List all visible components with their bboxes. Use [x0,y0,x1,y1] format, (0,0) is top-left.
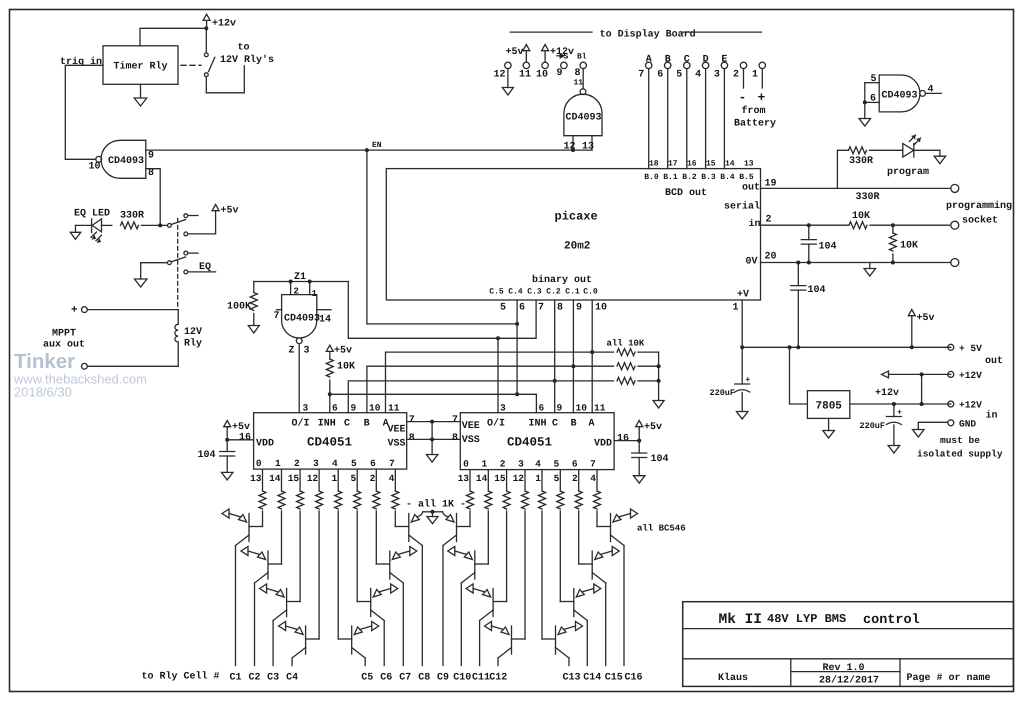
svg-text:4: 4 [695,70,701,81]
svg-text:8: 8 [557,303,563,314]
terminal +12V in [948,401,954,407]
node junction C.2 / C line [553,379,557,383]
svg-text:5: 5 [871,74,877,85]
svg-text:13: 13 [744,160,754,169]
switch S2a EQ select upper [168,224,172,228]
wire base C3 [299,511,301,602]
capacitor C3 104 (serial in) [808,225,810,239]
resistor 1K (channel C11) [506,470,508,491]
svg-text:+: + [745,376,750,385]
ground at U3 inputs [859,119,871,127]
svg-text:C6: C6 [380,673,392,684]
wire base C14 [559,511,561,602]
node junction emitter rail [431,510,435,514]
wire EN net vertical drop [366,150,368,324]
capacitor C4 104 (supply) [797,263,799,286]
wire Z output to CD4051#1 O/I [298,344,300,413]
svg-text:VEE: VEE [388,425,406,436]
svg-text:220uF: 220uF [710,388,736,398]
wire picaxe pin10 C.0 vertical [591,300,593,413]
node junction C.4 / INH line [515,392,519,396]
svg-text:2018/6/30: 2018/6/30 [14,385,72,400]
connector terminal 12 (display) [505,62,511,68]
wire terminal B to picaxe [667,69,669,169]
relay block Timer Rly [103,46,178,85]
wire U1 pin8 down to EQ LED node [146,169,160,226]
transistor C9 BC546 [456,514,458,542]
wire collector C15 output [605,583,607,666]
transistor C8 BC546 [408,514,410,542]
transistor C16 BC546 [610,514,612,542]
svg-text:+12v: +12v [212,19,236,30]
LED D2 emission arrows [910,135,916,142]
wire base C1 [262,511,264,527]
ground at 0V line [869,263,871,269]
transistor C2 BC546 [267,551,269,579]
svg-text:4: 4 [535,459,541,470]
transistor C5 BC546 [351,626,353,654]
terminal programming socket out [951,184,959,192]
svg-text:BCD out: BCD out [665,188,707,199]
svg-text:9: 9 [557,68,563,79]
svg-text:1: 1 [275,458,281,469]
wire serial in line (pin2) [761,224,850,226]
svg-text:11: 11 [574,79,584,88]
wire R7 to serial out line [837,150,848,188]
svg-text:+5v: +5v [644,422,662,433]
wire collector C1 output [235,546,237,666]
wire base C4 [318,511,320,639]
svg-text:1: 1 [535,473,541,484]
svg-text:16: 16 [239,433,251,444]
svg-text:0: 0 [256,458,262,469]
svg-text:C10: C10 [453,673,471,684]
node junction C.0 / A line [590,350,594,354]
terminal programming socket serial-in [951,221,959,229]
svg-text:5: 5 [554,473,560,484]
wire S2b common to ground [141,263,168,279]
connector terminal 1 (battery +) [759,62,765,68]
svg-text:7: 7 [409,415,415,426]
svg-text:C1: C1 [229,673,241,684]
svg-text:Rev 1.0: Rev 1.0 [823,663,865,674]
wire 10K common rail [658,352,660,400]
svg-text:48V LYP BMS: 48V LYP BMS [767,612,846,626]
wire terminal A to picaxe [648,69,650,169]
wire 7805 output to rail [790,347,808,404]
svg-text:7805: 7805 [816,401,843,413]
transistor C12 BC546 [511,626,513,654]
svg-text:VDD: VDD [594,439,612,450]
svg-text:104: 104 [819,242,837,253]
svg-text:Timer Rly: Timer Rly [114,61,168,73]
node junction serial-in cap [807,223,811,227]
svg-text:2: 2 [733,70,739,81]
wire GND terminal to ground [918,422,947,429]
wire base C7 [375,511,377,564]
svg-text:C4: C4 [286,673,298,684]
wire collector C4 output [291,658,293,666]
label +S at terminal 9 [557,55,560,57]
ground at 10K rail [653,401,664,409]
svg-text:-: - [739,90,747,105]
power flag +5v (CD4051#2) [636,421,643,427]
transistor C3 BC546 [286,589,288,617]
svg-text:+V: +V [737,290,749,301]
header label to Display Board [510,31,592,33]
transistor C4 BC546 [305,626,307,654]
node junction U3 inputs [863,100,867,104]
svg-text:7: 7 [452,415,458,426]
wire contact to 12V Rly's [206,66,244,93]
svg-text:picaxe: picaxe [555,210,598,224]
svg-text:3: 3 [303,403,309,414]
svg-text:C5: C5 [361,673,373,684]
wire R8 to socket [870,224,951,226]
wire 0V line (pin20) [761,262,951,264]
LED D1 EQ [91,219,93,233]
svg-text:MPPT: MPPT [52,329,76,340]
svg-text:5: 5 [553,459,559,470]
U3 pin6 stub [865,101,879,103]
svg-text:C.3: C.3 [527,288,542,297]
svg-text:5: 5 [676,70,682,81]
svg-text:VSS: VSS [388,439,406,450]
svg-text:in: in [986,410,998,422]
svg-text:control: control [863,613,920,628]
svg-text:9: 9 [576,303,582,314]
svg-text:7: 7 [274,311,280,322]
svg-text:C.1: C.1 [565,288,580,297]
svg-text:trig in: trig in [60,56,102,68]
node junction C.1 / B line [571,364,575,368]
svg-text:6: 6 [519,303,525,314]
resistor R9 10K pulldown [892,225,894,233]
U2 pin 12 stub [572,136,574,150]
NAND gate U1 CD4093 (trigger) [101,140,146,178]
wire C.3 net : Z1 input drop [348,282,536,339]
svg-text:C11: C11 [472,673,490,684]
node junction 0V/C3 [807,261,811,265]
NAND gate U2 CD4093 (pointing up) [564,94,602,136]
ground at C5 [736,412,748,420]
svg-text:10: 10 [536,70,548,81]
svg-text:0: 0 [463,459,469,470]
node junction VEE rail [430,420,434,424]
wire INH net to CD4051#2 [330,394,537,412]
svg-text:C14: C14 [583,673,601,684]
ground at program LED [939,150,941,156]
connector terminal 9 (display) [561,62,567,68]
capacitor C5 220uF [741,347,743,384]
resistor 1K (channel C3) [299,470,301,491]
svg-text:20m2: 20m2 [564,241,590,253]
svg-text:out: out [742,183,760,194]
wire VEE/VSS to ground [431,422,433,455]
svg-text:9: 9 [557,403,563,414]
wire base C5 [337,511,339,639]
svg-text:6: 6 [539,403,545,414]
svg-text:13: 13 [582,142,594,153]
dashed link Timer Rly to relay contact [181,64,201,66]
wire +12V out line [889,373,951,375]
switch S2b EQ select lower [168,261,172,265]
svg-text:VEE: VEE [462,421,480,432]
wire CD4051#2 pin3 O/I vertical [497,338,499,412]
svg-text:8: 8 [409,433,415,444]
U3 pin5 stub [865,82,879,84]
wire collector C12 output [497,658,499,666]
svg-text:+5v: +5v [232,422,250,433]
svg-text:out: out [985,356,1003,367]
ground at 7805 [828,418,830,430]
svg-text:C7: C7 [399,673,411,684]
node junction EN drop [365,148,369,152]
svg-text:+5v: +5v [334,346,352,357]
svg-text:6: 6 [657,70,663,81]
IC CD4051 #1 body [254,413,407,469]
svg-text:3: 3 [313,458,319,469]
terminal GND [948,420,954,426]
svg-text:to Rly Cell #: to Rly Cell # [142,671,220,683]
svg-text:10: 10 [89,162,101,173]
ground at 100K [248,326,259,334]
svg-text:12V Rly's: 12V Rly's [220,54,274,66]
ground below Timer Rly [140,84,142,98]
node junction rail/R5 [657,379,661,383]
wire collector C13 output [568,658,570,666]
svg-text:Page # or name: Page # or name [907,673,991,684]
svg-text:10: 10 [595,303,607,314]
wire +12v to Timer Rly [140,28,206,46]
svg-text:4: 4 [389,473,395,484]
resistor 1K (channel C1) [262,470,264,491]
wire collector C5 output [364,658,366,666]
svg-text:10K: 10K [900,241,918,252]
ground at emitter rail [432,512,434,517]
wire picaxe pin6 C.4 vertical [516,300,518,394]
svg-text:to: to [238,43,250,54]
svg-text:1: 1 [481,459,487,470]
svg-text:11: 11 [388,403,400,414]
transistor C13 BC546 [555,626,557,654]
svg-text:EN: EN [372,141,382,150]
svg-text:C8: C8 [418,673,430,684]
svg-text:+5v: +5v [506,47,524,58]
wire coil to MPPT - terminal [87,365,178,367]
node junction EQ LED / U1.8 / switch [158,223,162,227]
U2 pin 13 stub [591,136,593,150]
svg-text:104: 104 [198,450,216,461]
node junction rail/C4 [796,345,800,349]
svg-text:16: 16 [617,434,629,445]
wire collector C8 output [421,546,423,666]
LED D2 program [870,149,903,151]
resistor 1K (channel C16) [596,470,598,491]
svg-text:CD4093: CD4093 [108,156,144,167]
svg-text:CD4051: CD4051 [307,436,352,450]
wire +5V rail [742,346,951,348]
svg-text:3: 3 [714,70,720,81]
transistor C14 BC546 [573,589,575,617]
svg-text:from: from [742,105,766,117]
wire base C6 [356,511,358,602]
wire trig in to gate U1 input [65,65,103,159]
ground at S2b [134,279,147,287]
svg-text:15: 15 [706,160,716,169]
node junction rail/R4 [657,364,661,368]
svg-text:EQ LED: EQ LED [74,209,110,220]
svg-text:18: 18 [649,160,659,169]
svg-text:2: 2 [294,458,300,469]
svg-text:0V: 0V [746,257,758,268]
ground at C1 [221,472,233,480]
svg-text:12: 12 [494,70,506,81]
node junction VDD#1 [225,438,229,442]
svg-text:O/I: O/I [487,418,505,430]
svg-text:2: 2 [370,473,376,484]
svg-text:programming: programming [946,200,1012,212]
svg-text:- all 1K -: - all 1K - [406,499,466,511]
terminal programming socket 0V [951,259,959,267]
svg-text:14: 14 [319,315,331,326]
node junction rail/7805 out [788,345,792,349]
svg-text:1: 1 [331,473,337,484]
svg-text:220uF: 220uF [860,421,886,431]
wire U3 inputs to ground [864,83,866,119]
svg-text:C.5: C.5 [489,288,504,297]
power flag +12v at terminal 10 [542,45,549,51]
svg-text:13: 13 [250,473,262,484]
svg-text:CD4093: CD4093 [284,314,320,325]
wire picaxe pin8 C.2 vertical [554,300,556,413]
svg-text:C12: C12 [489,673,507,684]
svg-text:13: 13 [458,473,470,484]
node junction VSS rail [430,437,434,441]
svg-text:to Display Board: to Display Board [600,29,696,41]
connector terminal 11 (display) [523,62,529,68]
svg-text:B.1: B.1 [663,173,678,182]
svg-text:8: 8 [148,168,154,179]
wire collector C9 output [442,546,444,666]
wire base C12 [524,511,526,639]
svg-text:1: 1 [312,289,318,299]
svg-text:B.0: B.0 [644,173,659,182]
svg-text:serial: serial [724,201,760,213]
svg-text:+12V: +12V [959,400,982,411]
resistor 1K (channel C13) [541,470,543,491]
svg-text:Tinker: Tinker [14,350,75,373]
relay coil 12V Rly [177,310,179,325]
wire collector C6 output [383,621,385,666]
svg-text:+12V: +12V [959,370,982,381]
svg-text:2: 2 [766,215,772,226]
svg-text:+: + [71,305,78,317]
node junction +12 branch [920,402,924,406]
wire VSS link [407,438,461,440]
node junction EN / U2 pin12 [571,148,575,152]
NAND gate Z1 CD4093 (inverter, pointing down) [282,295,317,338]
resistor 1K (channel C4) [318,470,320,491]
resistor 1K (channel C6) [356,470,358,491]
wire S2a to +5v [188,211,216,234]
svg-text:+: + [897,409,902,418]
svg-text:11: 11 [594,403,606,414]
wire base C16 [596,511,598,527]
svg-text:+12v: +12v [875,388,899,399]
node junction serial-in / R9 [891,223,895,227]
IC CD4051 #2 body [460,413,614,470]
svg-text:all BC546: all BC546 [637,524,686,534]
svg-text:12: 12 [307,473,319,484]
svg-text:14: 14 [269,473,281,484]
transistor C7 BC546 [389,551,391,579]
svg-text:330R: 330R [849,156,873,167]
svg-text:binary out: binary out [532,274,592,286]
node junction +V rail [740,345,744,349]
wire picaxe pin1 +V [741,300,743,347]
capacitor C2 104 (CD4051#2) [638,441,640,453]
svg-text:15: 15 [288,473,300,484]
svg-text:2: 2 [572,473,578,484]
svg-text:Z: Z [289,346,295,357]
transistor C6 BC546 [370,589,372,617]
svg-text:7: 7 [389,458,395,469]
svg-text:C9: C9 [437,673,449,684]
resistor R4 10K (C.1 net) [617,363,635,370]
wire 7805 input to +12V in [850,403,951,405]
resistor 1K (channel C14) [559,470,561,491]
svg-text:B.5: B.5 [739,173,754,182]
wire VDD#2 to +5v [614,440,639,442]
node junction rail/+5v flag [910,345,914,349]
wire collector C7 output [402,583,404,666]
svg-text:socket: socket [962,215,998,227]
svg-text:INH: INH [318,419,336,430]
svg-text:2: 2 [500,459,506,470]
svg-text:isolated supply: isolated supply [917,449,1003,460]
svg-text:+5v: +5v [221,206,239,217]
Z1 pin 7 tick and label [277,309,282,311]
svg-text:B.2: B.2 [682,173,697,182]
capacitor C1 104 (CD4051#1) [226,440,228,452]
svg-text:C2: C2 [248,673,260,684]
wire collector C3 output [272,621,274,666]
svg-text:C16: C16 [624,673,642,684]
svg-text:C13: C13 [562,673,580,684]
svg-text:Mk II: Mk II [719,612,763,628]
svg-text:CD4051: CD4051 [507,436,552,450]
svg-text:+: + [758,90,766,105]
svg-text:100K: 100K [227,302,251,313]
svg-text:C.0: C.0 [583,288,598,297]
svg-text:4: 4 [332,458,338,469]
svg-text:5: 5 [350,473,356,484]
resistor 1K (channel C8) [394,470,396,491]
wire base C9 [469,511,471,527]
svg-text:A: A [588,419,594,430]
resistor 1K (channel C15) [578,470,580,491]
ganged switch dashed link [177,219,179,309]
transistor C15 BC546 [591,551,593,579]
title block frame [683,602,1014,687]
node junction INH [328,392,332,396]
resistor R8 10K (serial in) [849,222,867,229]
regulator 7805 [807,391,849,419]
svg-text:14: 14 [725,160,735,169]
ground at GND terminal [913,430,925,438]
wire serial out line (pin19) [761,187,951,189]
